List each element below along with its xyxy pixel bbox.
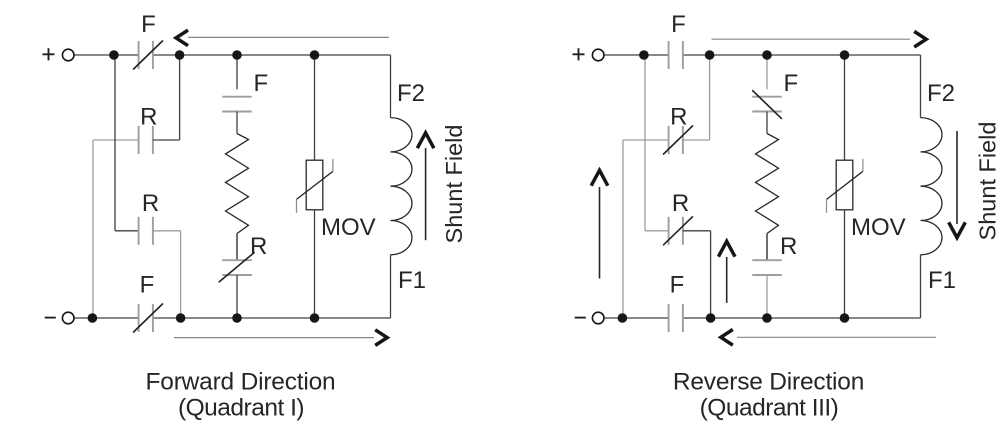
svg-text:Shunt Field: Shunt Field bbox=[441, 125, 467, 244]
svg-text:R: R bbox=[250, 233, 267, 260]
svg-text:R: R bbox=[140, 104, 157, 131]
svg-text:Shunt Field: Shunt Field bbox=[975, 122, 1001, 241]
svg-text:MOV: MOV bbox=[321, 214, 376, 241]
svg-text:Reverse Direction: Reverse Direction bbox=[673, 369, 864, 396]
svg-text:F: F bbox=[784, 70, 799, 97]
svg-text:R: R bbox=[142, 190, 159, 217]
svg-text:F: F bbox=[254, 70, 269, 97]
svg-text:F2: F2 bbox=[397, 80, 425, 107]
svg-text:R: R bbox=[780, 233, 797, 260]
svg-text:F1: F1 bbox=[928, 267, 956, 294]
svg-text:R: R bbox=[672, 190, 689, 217]
svg-text:MOV: MOV bbox=[851, 214, 906, 241]
svg-text:(Quadrant I): (Quadrant I) bbox=[178, 395, 304, 422]
svg-text:Forward Direction: Forward Direction bbox=[146, 369, 336, 396]
svg-text:F2: F2 bbox=[927, 80, 955, 107]
svg-text:F: F bbox=[670, 272, 685, 299]
svg-text:F: F bbox=[140, 272, 155, 299]
svg-text:F: F bbox=[671, 11, 686, 38]
svg-text:F: F bbox=[141, 11, 156, 38]
svg-text:(Quadrant III): (Quadrant III) bbox=[700, 395, 839, 422]
svg-text:F1: F1 bbox=[398, 267, 426, 294]
svg-text:R: R bbox=[670, 104, 687, 131]
